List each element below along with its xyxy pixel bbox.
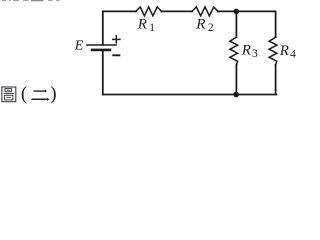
svg-text:4: 4 — [290, 48, 296, 60]
svg-text:): ) — [50, 84, 56, 105]
svg-text:R: R — [137, 16, 147, 32]
svg-text:3: 3 — [252, 48, 258, 60]
svg-text:2: 2 — [208, 22, 214, 34]
svg-text:R: R — [241, 42, 251, 58]
svg-text:R: R — [195, 16, 205, 32]
svg-text:R: R — [279, 43, 289, 59]
svg-text:E: E — [74, 39, 84, 54]
svg-text:1: 1 — [149, 22, 155, 34]
svg-text:(: ( — [21, 84, 27, 105]
